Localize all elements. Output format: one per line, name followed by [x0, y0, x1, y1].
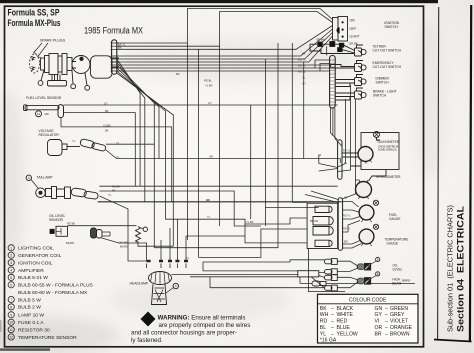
wire ladder L2	[117, 33, 333, 60]
fuel sensor connector capsule	[58, 105, 64, 118]
temperature gauge	[359, 229, 374, 244]
svg-text:BK: BK	[206, 198, 210, 202]
svg-text:YL BK: YL BK	[205, 84, 213, 88]
svg-text:LIGHT: LIGHT	[350, 35, 360, 39]
svg-text:RD YL: RD YL	[298, 64, 306, 68]
wire vertical x198 low	[198, 49, 200, 257]
regulator lead	[67, 146, 80, 148]
svg-text:ORANGE: ORANGE	[390, 325, 413, 331]
wire headlamp drop 2	[169, 228, 171, 261]
temperature gauge pilot	[373, 224, 378, 229]
ground wire 3	[85, 73, 87, 86]
svg-text:are properly crimped on the wi: are properly crimped on the wires	[159, 322, 251, 329]
fuse 3	[325, 275, 338, 281]
oil sensor wire labels	[66, 221, 190, 260]
wire switch col down legs	[338, 85, 356, 199]
svg-text:WHITE: WHITE	[337, 312, 354, 318]
ignition switch connector	[333, 18, 339, 41]
ground wire 2	[72, 71, 73, 85]
svg-text:GY: GY	[208, 101, 212, 105]
wire fuse1 to lamp1	[337, 261, 357, 265]
sidebar bottom tick	[434, 340, 472, 342]
svg-text:RD YL: RD YL	[298, 58, 306, 62]
wire headlamp out right 1	[172, 274, 298, 276]
svg-text:BR: BR	[344, 240, 348, 244]
headlamp housing bulb 1	[315, 206, 332, 212]
wire fan down-left F	[117, 73, 174, 246]
svg-text:RD/BK: RD/BK	[112, 185, 120, 189]
headlamp connector row	[147, 260, 188, 263]
legend item 4 amplifier	[8, 267, 14, 273]
svg-text:8: 8	[10, 305, 12, 309]
wire resistor bottom run	[138, 242, 173, 247]
gauge connector bar upper	[338, 140, 342, 180]
tachometer pilot lamp	[374, 132, 380, 138]
engine cylinder	[52, 75, 60, 81]
svg-text:3: 3	[10, 261, 12, 265]
legend item 5 bulb 5-21	[8, 274, 14, 280]
svg-text:CUT-OUT SWITCH: CUT-OUT SWITCH	[373, 65, 402, 69]
engine base plate	[48, 81, 67, 87]
rear connector row	[312, 281, 320, 286]
svg-text:BLACK: BLACK	[337, 306, 354, 312]
headlamp housing bulb 3	[315, 240, 332, 246]
engine to capsule link	[112, 58, 119, 67]
svg-text:BULB 2 W: BULB 2 W	[18, 305, 41, 311]
svg-text:RD YL: RD YL	[343, 149, 351, 153]
svg-text:RED: RED	[337, 319, 348, 325]
wire headlamp drop 4	[186, 236, 245, 261]
wire fuel sensor GY run	[64, 104, 338, 106]
svg-text:10: 10	[9, 321, 13, 325]
oil sensor connector (dark pair)	[91, 228, 97, 238]
svg-text:12: 12	[37, 112, 41, 116]
svg-text:YL: YL	[207, 215, 211, 219]
svg-text:VIOLET: VIOLET	[390, 319, 408, 325]
scan top edge bar	[0, 0, 438, 3]
wire gauge bar right stubs	[342, 202, 362, 249]
svg-text:YL: YL	[72, 139, 76, 143]
svg-text:Sub-section 01 (ELECTRIC CHAR: Sub-section 01 (ELECTRIC CHARTS)	[446, 205, 455, 332]
emergency switch wiring	[331, 65, 355, 69]
svg-text:BULB 60-55 W - FORMULA PLUS: BULB 60-55 W - FORMULA PLUS	[18, 283, 93, 289]
svg-text:RD BL: RD BL	[204, 79, 212, 83]
colour code box	[318, 294, 419, 343]
wire bold BK y202	[98, 201, 342, 203]
svg-text:YL: YL	[186, 256, 190, 260]
legend item 8 bulb 2w	[8, 304, 14, 310]
fuse 1	[325, 259, 338, 265]
wire vertical x187 low	[187, 43, 189, 240]
svg-text:BK: BK	[320, 306, 327, 312]
svg-text:6: 6	[10, 283, 12, 287]
resistor terminal circle	[143, 227, 147, 231]
ignition switch terminals	[342, 21, 344, 23]
colour code rows	[320, 306, 413, 344]
svg-text:LAMP 10 W: LAMP 10 W	[18, 313, 44, 319]
tachometer gauge	[358, 147, 373, 162]
speedometer	[356, 182, 372, 198]
tether connector block 1	[318, 42, 323, 47]
svg-text:1: 1	[10, 246, 12, 250]
pilot resistor block	[298, 271, 319, 277]
svg-text:WARNING: Ensure all terminals: WARNING: Ensure all terminals	[158, 315, 246, 322]
housing shaft line	[72, 62, 76, 69]
svg-text:–: –	[385, 306, 388, 312]
svg-text:RD: RD	[320, 319, 328, 325]
svg-text:SWITCH: SWITCH	[376, 81, 390, 85]
tether wiring	[310, 44, 355, 53]
svg-text:GR: GR	[45, 112, 49, 116]
wire vertical x250	[250, 105, 252, 219]
svg-text:HEADLAMP: HEADLAMP	[130, 282, 149, 286]
svg-text:GREEN: GREEN	[390, 306, 408, 312]
svg-text:BR/RD: BR/RD	[402, 279, 410, 283]
wire tach chevron	[319, 155, 338, 171]
headlamp housing (right)	[307, 203, 338, 248]
svg-text:BULB 5-21 W: BULB 5-21 W	[18, 275, 48, 281]
oil sensor body	[56, 226, 68, 236]
svg-text:RD BL: RD BL	[298, 70, 306, 74]
svg-text:BULB 5 W: BULB 5 W	[18, 297, 41, 303]
svg-text:YL/BK: YL/BK	[103, 124, 111, 128]
ring terminal 3	[85, 85, 90, 90]
wire BKRD down	[102, 238, 147, 261]
svg-text:YL: YL	[116, 155, 120, 159]
amplifier connector pair (angled capsules)	[80, 138, 107, 151]
svg-text:FUSE 0.1 A: FUSE 0.1 A	[18, 320, 44, 326]
wire top run 1	[117, 9, 333, 44]
tether connector block 3	[339, 43, 344, 47]
svg-text:–: –	[385, 325, 388, 331]
svg-text:2: 2	[10, 254, 12, 258]
legend item 9 lamp 10w	[8, 312, 14, 318]
svg-text:RD YL: RD YL	[343, 227, 351, 231]
svg-text:–: –	[331, 325, 334, 331]
oil sensor black terminal	[50, 229, 54, 233]
wire oil-res link	[102, 232, 110, 236]
wire ladder L3	[117, 36, 333, 62]
headlamp circled 6	[173, 283, 178, 288]
flywheel	[72, 56, 90, 74]
taillamp connector capsules	[71, 188, 99, 200]
warning diamond	[141, 312, 156, 327]
colour code title rule	[318, 303, 419, 305]
wire ladder L5 to harness	[117, 60, 330, 68]
gauge wire labels	[343, 149, 351, 244]
wire pilot feed 1	[203, 260, 325, 271]
legend item 6 bulb 60-55	[8, 282, 14, 288]
headlamp bell	[152, 284, 167, 304]
ground wire 1	[41, 70, 44, 81]
spark plug 1	[31, 57, 35, 61]
svg-text:SPARK PLUGS: SPARK PLUGS	[40, 39, 66, 43]
wire harness bar down legs	[331, 108, 342, 146]
svg-text:–: –	[331, 312, 334, 318]
tether connector block 2	[330, 42, 335, 47]
spark plugs dashed outline	[30, 54, 40, 73]
legend item 11 resistor	[8, 327, 14, 333]
headlamp housing bulb 2	[313, 217, 333, 236]
wire to ignition switch 3	[117, 26, 333, 50]
svg-text:YL: YL	[108, 193, 112, 197]
wire y192 to headlamp	[292, 43, 307, 202]
svg-text:VI: VI	[375, 319, 380, 325]
svg-text:SWITCH: SWITCH	[373, 94, 387, 98]
wire vertical x326	[326, 46, 328, 55]
pilot lamp high beam	[357, 278, 371, 285]
wire oil-res top	[68, 225, 137, 227]
scan left edge mark	[0, 320, 2, 332]
svg-text:COLOUR CODE: COLOUR CODE	[349, 298, 387, 304]
svg-text:GENERATOR COIL: GENERATOR COIL	[18, 253, 62, 259]
ring terminal 1	[38, 81, 43, 86]
legend item 1 lighting coil	[8, 245, 14, 251]
svg-text:SENSOR: SENSOR	[49, 218, 64, 222]
svg-text:–: –	[385, 331, 388, 337]
wire y257.4 run	[199, 229, 308, 257]
svg-text:LIGHTING COIL: LIGHTING COIL	[18, 246, 54, 252]
emergency cut-out switch symbol	[355, 64, 362, 72]
fuel gauge pilot	[373, 200, 378, 205]
svg-text:BK: BK	[176, 72, 180, 76]
spark plugs leader arrows	[34, 43, 49, 57]
svg-text:TEMPERATURE SENSOR: TEMPERATURE SENSOR	[18, 335, 77, 341]
svg-text:–: –	[385, 319, 388, 325]
svg-text:RESISTOR 30: RESISTOR 30	[18, 327, 50, 333]
svg-text:TACHOMETER: TACHOMETER	[377, 140, 400, 144]
svg-text:BULB 60-60 W - FORMULA MX: BULB 60-60 W - FORMULA MX	[18, 290, 88, 296]
wire headlamp out right 2	[190, 276, 298, 278]
wire regulator YL out 1	[106, 143, 154, 145]
legend item 12 temperature sensor	[8, 334, 14, 340]
svg-text:Section 04 ELECTRICAL: Section 04 ELECTRICAL	[456, 206, 466, 332]
svg-text:LEVEL: LEVEL	[393, 267, 403, 271]
wire fan down-left E	[117, 71, 166, 219]
fuse 2	[325, 269, 338, 275]
svg-text:REGULATOR: REGULATOR	[39, 133, 60, 137]
wire fan down-left C	[117, 65, 155, 248]
wire fan down-left A	[117, 59, 140, 186]
taillamp circled 9	[26, 175, 31, 180]
svg-text:BLUE: BLUE	[337, 325, 351, 331]
wire YL BK y224	[245, 218, 307, 224]
voltage regulator body	[48, 140, 63, 156]
brake light switch wiring	[335, 93, 355, 100]
wire fan down-left B	[117, 62, 145, 202]
legend item 2 generator coil	[8, 252, 14, 258]
harness bar pins	[330, 60, 335, 102]
wire y247.7 run	[154, 43, 278, 248]
taillamp wire labels	[108, 185, 120, 198]
svg-text:GREY: GREY	[390, 312, 405, 318]
harness connector capsule	[112, 40, 117, 74]
wire taillamp out 2	[99, 191, 261, 226]
svg-text:WH: WH	[320, 312, 329, 318]
wire fuse4 to lamp2	[337, 282, 357, 287]
sidebar inner rule	[438, 7, 439, 339]
svg-text:YL: YL	[302, 76, 306, 80]
svg-text:7: 7	[10, 298, 12, 302]
taillamp leader	[31, 180, 38, 189]
wire speedo feed	[265, 207, 318, 209]
wire vertical x303	[303, 62, 305, 159]
svg-text:AMPLIFIER: AMPLIFIER	[18, 268, 44, 274]
svg-text:SPEEDOMETER: SPEEDOMETER	[376, 175, 401, 179]
wire block to fuses	[311, 272, 325, 288]
dimmer switch wiring	[335, 80, 355, 87]
svg-text:BK: BK	[112, 189, 116, 193]
resistor 30 zigzag	[136, 227, 141, 243]
wire fan down-left D	[117, 68, 159, 159]
wire fuse2 to lamp1	[337, 268, 357, 271]
svg-text:OR: OR	[209, 155, 213, 159]
fuel gauge	[359, 205, 374, 220]
wire tail harness bottom	[300, 277, 415, 284]
svg-text:ly fastened.: ly fastened.	[131, 337, 163, 344]
svg-text:GAUGE: GAUGE	[389, 217, 401, 221]
svg-text:12: 12	[9, 336, 13, 340]
high beam pilot circled 8	[376, 272, 380, 276]
svg-text:9: 9	[10, 313, 12, 317]
svg-text:–: –	[385, 312, 388, 318]
svg-text:YL BK: YL BK	[246, 220, 254, 224]
harness bar	[330, 56, 336, 109]
legend item 10 fuse	[8, 319, 14, 325]
svg-text:BK: BK	[302, 52, 306, 56]
svg-text:ON: ON	[350, 19, 356, 23]
svg-text:BK: BK	[118, 46, 122, 50]
wire taillamp out 1	[99, 185, 337, 187]
ignition switch body	[338, 17, 348, 42]
tether cut-out switch symbol	[355, 48, 362, 56]
wire fuse3 to lamp2	[337, 277, 357, 279]
svg-text:YL: YL	[116, 141, 120, 145]
svg-text:BK/RD: BK/RD	[66, 241, 74, 245]
tether connector block 4	[338, 48, 343, 52]
gauge connector bar lower	[338, 198, 342, 251]
taillamp socket	[36, 188, 46, 198]
svg-text:BEAM: BEAM	[392, 282, 401, 286]
legend item 3 ignition coil	[8, 260, 14, 266]
capsule pins	[111, 43, 118, 71]
taillamp body chain	[46, 189, 52, 197]
svg-text:SOME MODELS): SOME MODELS)	[378, 149, 397, 152]
wire ladder L4 to harness	[117, 64, 330, 66]
svg-text:–: –	[331, 306, 334, 312]
scan bottom-left smudge	[0, 348, 50, 350]
wire taillamp out 3	[99, 196, 146, 261]
wire code labels column	[72, 43, 306, 224]
svg-text:OR: OR	[375, 325, 383, 331]
oil level pilot circled 8	[376, 257, 380, 261]
svg-text:RD YL: RD YL	[343, 214, 351, 218]
brake light switch symbol	[355, 91, 362, 99]
svg-text:WH BK: WH BK	[119, 240, 128, 244]
wire YL run y219	[165, 219, 307, 243]
svg-text:BK: BK	[105, 129, 109, 133]
svg-text:*16 GA: *16 GA	[320, 337, 337, 343]
wire headlamp drop 3	[176, 219, 178, 261]
svg-text:GAUGE: GAUGE	[387, 242, 399, 246]
wire fuel sensor BK run	[64, 113, 136, 187]
headlamp housing drop	[308, 249, 345, 292]
svg-text:1985 Formula MX: 1985 Formula MX	[84, 26, 143, 36]
dimmer switch symbol	[355, 78, 362, 86]
wire speedo chevron	[305, 191, 338, 203]
svg-text:4: 4	[10, 269, 12, 273]
wire headlamp drop 1	[160, 240, 162, 261]
headlamp bulb dome	[149, 272, 172, 285]
wire YLBK run y126.9	[61, 118, 172, 202]
svg-text:LB: LB	[344, 196, 347, 200]
spark plug 2	[31, 67, 35, 71]
svg-text:GY: GY	[104, 101, 108, 105]
svg-text:GY: GY	[302, 82, 306, 86]
svg-text:OFF: OFF	[350, 27, 357, 31]
flywheel dot	[80, 57, 83, 60]
svg-text:TAILLAMP: TAILLAMP	[37, 176, 54, 180]
svg-text:RD BK: RD BK	[67, 221, 75, 225]
svg-text:and all connector housings are: and all connector housings are proper-	[131, 330, 237, 337]
sidebar outer rule	[470, 5, 471, 341]
svg-text:5: 5	[10, 276, 12, 280]
svg-text:BK GN: BK GN	[310, 219, 318, 223]
svg-text:CUT-OUT SWITCH: CUT-OUT SWITCH	[373, 49, 402, 53]
ring terminal 2	[71, 84, 76, 89]
wire regulator YL out 2 / OR run	[106, 150, 340, 163]
svg-text:GR BK: GR BK	[316, 38, 325, 42]
magneto housing	[91, 56, 113, 78]
svg-text:Formula MX-Plus: Formula MX-Plus	[8, 18, 61, 28]
fuel level sensor tube	[25, 106, 59, 110]
pilot lamp oil level	[357, 263, 371, 270]
svg-text:YL: YL	[344, 161, 348, 165]
ignition switch rotor blob	[336, 27, 339, 33]
wire ladder L1	[117, 29, 333, 56]
voltage regulator tab	[62, 144, 67, 150]
svg-text:FUEL LEVEL SENSOR: FUEL LEVEL SENSOR	[26, 96, 62, 100]
fuel sensor circled 12	[36, 111, 42, 117]
svg-text:BL: BL	[320, 325, 326, 331]
legend item 7 bulb 5w	[8, 296, 14, 302]
svg-text:IGNITION COIL: IGNITION COIL	[18, 260, 53, 266]
wire vertical x265	[264, 59, 266, 226]
wire pilot feed 4	[210, 277, 325, 288]
svg-text:YELLOW: YELLOW	[337, 331, 358, 337]
svg-text:BROWN: BROWN	[390, 331, 410, 337]
wire top run 2	[117, 12, 333, 227]
svg-text:Formula SS, SP: Formula SS, SP	[8, 7, 60, 17]
svg-text:BK/RD: BK/RD	[120, 244, 128, 248]
wire ladder L6 to harness	[117, 64, 330, 72]
svg-text:BK: BK	[105, 109, 109, 113]
svg-text:SWITCH: SWITCH	[385, 25, 399, 29]
fuse 4	[325, 285, 338, 291]
svg-text:GY: GY	[375, 312, 383, 318]
svg-text:BR: BR	[375, 331, 382, 337]
tachometer wires in	[342, 138, 386, 182]
engine crankcase stack	[41, 58, 45, 70]
svg-text:11: 11	[9, 328, 13, 332]
svg-text:–: –	[331, 319, 334, 325]
tachometer box	[361, 133, 399, 170]
svg-text:GN: GN	[375, 306, 383, 312]
